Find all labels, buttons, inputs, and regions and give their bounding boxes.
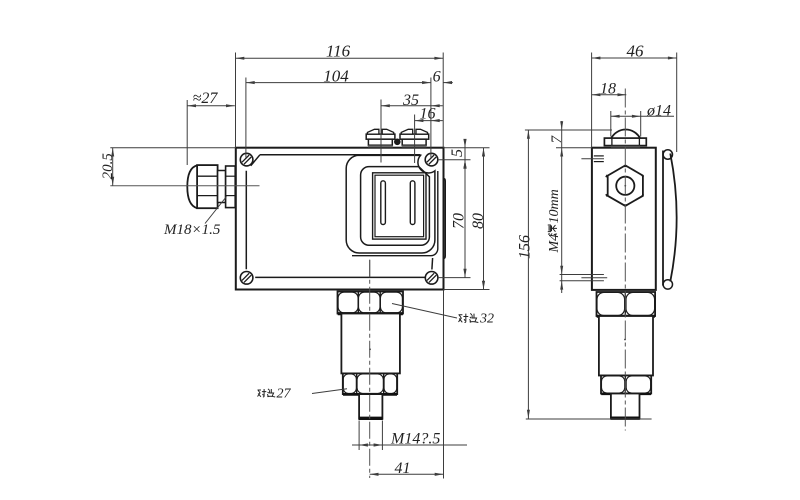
side view: cap gasket seat [611,146,640,148]
dimension 18 [592,94,627,96]
svg-text:M14?.5: M14?.5 [390,431,440,448]
front view: window slot right [410,181,415,225]
side view: cover bulge profile [670,154,676,282]
front view: cable gland M18 dome cap [187,165,197,208]
front view: switch window raised square outer [346,155,435,253]
side extension lines [591,53,593,148]
svg-text:46: 46 [627,41,645,60]
front view: switch housing box outline [236,148,444,290]
front view: sensor body cylinder [341,314,400,374]
side view: M4 hole thread marks bottom [560,274,604,276]
svg-text:27: 27 [277,387,292,402]
dimension 41 [443,290,445,479]
svg-text:10mm: 10mm [547,189,562,223]
side view: threaded stub [611,394,640,419]
front view: window slot left [381,181,386,225]
dimension approx 27 [186,100,188,165]
front view: terminal screw block right [400,134,429,139]
front view: corner screw bottom-left [240,272,253,285]
side view: M4 hole thread marks top [594,155,604,157]
side view: body cylinder [599,316,653,376]
svg-text:32: 32 [479,312,494,327]
svg-text:M4: M4 [547,234,562,254]
svg-text:ø14: ø14 [646,102,671,119]
side view: bottom screw boss ear [663,280,672,289]
front view: cable gland neck ring [218,171,226,203]
front view: window inner rounded frame [361,167,430,246]
dimension 35 [381,105,443,107]
side view: gland hex fitting [608,165,643,206]
svg-text:70: 70 [451,213,468,229]
label duibiain32 text [459,314,469,323]
front view: corner screw top-right [425,153,438,166]
svg-text:16: 16 [420,106,436,123]
front view: M14 threaded stub [359,394,382,419]
svg-text:104: 104 [323,66,349,85]
dimension 5 [464,139,466,169]
front view: window side shadow edge [352,171,438,256]
svg-text:≈27: ≈27 [193,90,219,107]
side view: top cap plate [604,138,646,146]
dimension 70 [464,160,466,278]
label M18x1.5 with leader [205,197,227,224]
front view: cover inner outline [246,155,432,278]
front view: corner screw bottom-right [425,272,438,285]
extension lines above front view [235,53,237,148]
svg-text:116: 116 [326,42,351,61]
svg-text:41: 41 [395,460,411,477]
svg-text:35: 35 [402,92,419,109]
dimension M14x1.5 [358,421,360,451]
front view: right side cover tab line [444,179,446,259]
svg-text:18: 18 [600,81,616,98]
label 32AF with leader [392,304,457,319]
side view: lower hex nut [601,376,651,394]
dimension 156 [527,130,529,419]
dimension dia 14 [611,115,674,117]
front view: window label plate double rectangle [373,173,426,239]
svg-text:156: 156 [517,235,534,259]
front view: cover hinge mark below window [369,260,371,278]
dimension 6 [443,82,453,84]
front view: terminal screw block left [366,134,395,139]
dimension 104 [246,82,431,84]
front view: upper hex nut 32AF [338,292,404,314]
svg-text:M18×1.5: M18×1.5 [163,222,221,238]
dimension 46 [592,57,677,59]
front view: corner screw top-left [240,153,253,166]
front view: cable gland locknut [226,166,236,208]
svg-text:5: 5 [449,149,466,157]
right side extension lines [444,147,490,149]
front view: cable gland hex body [197,165,218,208]
svg-text:20.5: 20.5 [100,153,116,180]
front view: lower hex nut 27AF [343,373,397,394]
dimension 116 [236,57,444,59]
label 27AF with leader [312,389,347,394]
side view: cover edge line [662,151,664,286]
dimension 20.5 [110,147,236,149]
side view: top screw boss ear [663,150,672,159]
label M4 depth 10mm rotated [547,189,562,253]
label duibiain27 text [258,389,267,397]
front view: vertical centerline [369,260,371,478]
side view: vertical centerline [624,89,626,431]
dimension 16 [415,120,443,122]
front view: gland horizontal centerline [110,185,259,187]
svg-text:80: 80 [470,213,487,229]
dimension 7 and M4 hole dim line [561,121,563,293]
side view: upper hex nut [597,292,656,316]
svg-text:6: 6 [433,68,441,85]
front view: small screw between terminals [395,139,401,145]
side view: body outline [592,148,656,290]
dimension 80 [483,148,485,290]
side view: top cap dome [611,130,640,139]
